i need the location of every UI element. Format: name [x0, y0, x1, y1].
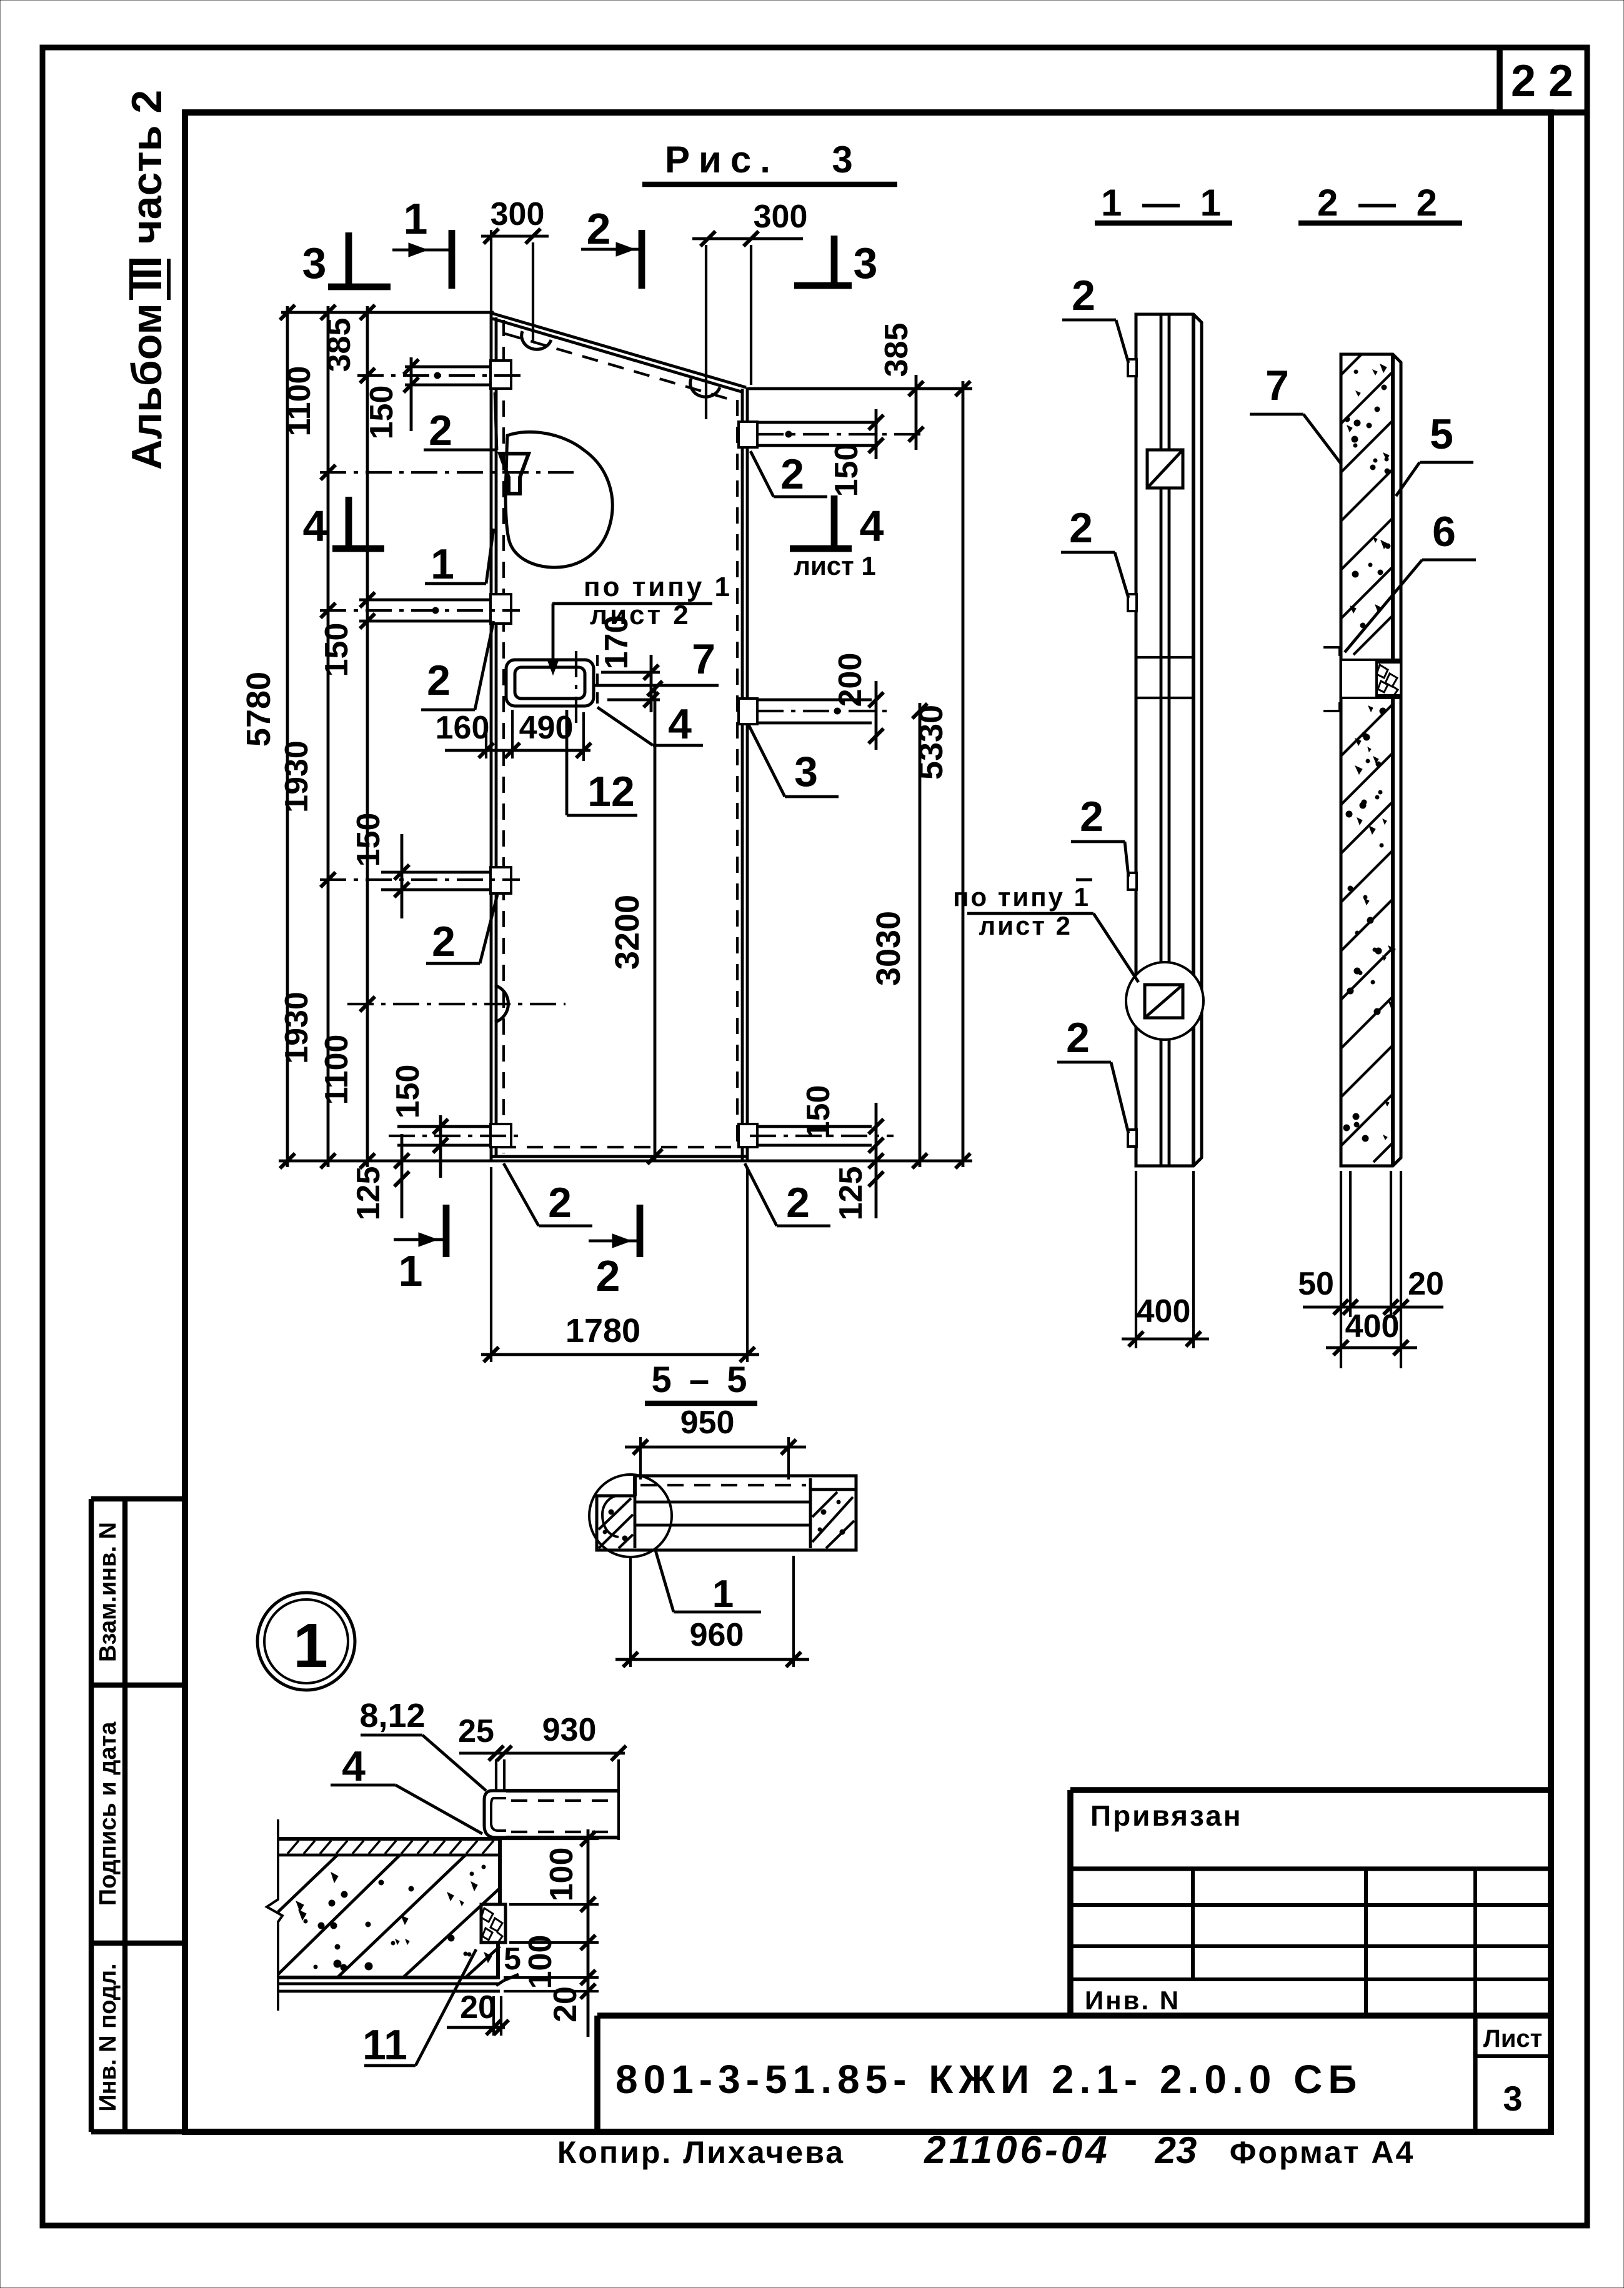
section 5-5 left concrete end	[599, 1496, 635, 1548]
svg-text:300: 300	[491, 196, 545, 232]
svg-text:2: 2	[1072, 272, 1095, 319]
svg-text:2: 2	[1066, 1014, 1090, 1062]
svg-text:3200: 3200	[609, 895, 646, 970]
svg-text:125: 125	[833, 1166, 869, 1221]
label 1 section 5-5	[655, 1548, 761, 1616]
svg-text:1: 1	[431, 540, 454, 588]
title block privyazan box	[1070, 1790, 1550, 2016]
svg-text:Привязан: Привязан	[1090, 1799, 1243, 1832]
svg-text:801-3-51.85- КЖИ 2.1- 2.0.0 СБ: 801-3-51.85- КЖИ 2.1- 2.0.0 СБ	[615, 2057, 1362, 2102]
note po tipu 1 list 2 (channel)	[547, 572, 732, 675]
svg-text:2: 2	[427, 657, 451, 704]
svg-text:300: 300	[754, 199, 808, 235]
dimension 1780 bottom width	[481, 1167, 759, 1362]
extension line panel top left	[281, 311, 494, 314]
svg-text:2: 2	[786, 1179, 810, 1226]
section 1-1 detail circle with anchor box	[1126, 962, 1203, 1040]
dimension line left 385 / 1100 bottom	[319, 305, 375, 1168]
svg-text:20: 20	[1408, 1266, 1444, 1302]
anchor tab row1 left edge	[357, 361, 522, 389]
svg-text:Лист: Лист	[1483, 2025, 1543, 2052]
panel right edge hidden line	[736, 400, 739, 1150]
section 5-5 detail circle callout	[589, 1475, 672, 1557]
svg-text:150: 150	[364, 385, 400, 440]
svg-text:400: 400	[1345, 1308, 1400, 1345]
dimension 150 row2 left	[319, 592, 375, 677]
label 7 section 2-2	[1250, 362, 1341, 464]
keyway block node detail	[481, 1904, 506, 1942]
svg-text:20: 20	[460, 1989, 496, 2026]
svg-text:385: 385	[321, 318, 357, 372]
label 2 section 1-1 fourth	[1057, 1014, 1128, 1133]
svg-text:5: 5	[1430, 410, 1453, 458]
svg-text:12: 12	[587, 768, 635, 815]
left sidebar stamp cells	[91, 1499, 185, 2132]
sidebar label Podpis i data	[95, 1721, 121, 1906]
svg-text:2: 2	[1080, 793, 1103, 840]
svg-text:1: 1	[712, 1573, 734, 1616]
svg-text:лист 1: лист 1	[794, 551, 875, 580]
sidebar label Vzam.inv.N	[95, 1522, 121, 1662]
svg-text:3: 3	[1503, 2079, 1522, 2118]
svg-text:2: 2	[587, 204, 611, 253]
svg-text:3030: 3030	[870, 911, 907, 986]
dimension 3200 inner height	[609, 681, 662, 1164]
label 7 channel	[594, 635, 719, 685]
svg-text:7: 7	[692, 635, 715, 683]
svg-text:1: 1	[404, 194, 428, 243]
svg-text:5330: 5330	[912, 705, 950, 780]
anchor tab rowB right edge	[739, 699, 894, 724]
dimension 5780 overall height	[240, 305, 295, 1168]
svg-text:23: 23	[1155, 2129, 1197, 2171]
label 2 bottom left	[504, 1163, 592, 1226]
detail designation circle 1	[257, 1593, 355, 1690]
album annotation Albom III chast 2	[123, 90, 171, 470]
panel top sloped hidden line	[505, 334, 736, 401]
dimension 125 bottom right	[833, 1153, 884, 1220]
svg-text:1: 1	[293, 1611, 328, 1681]
floor slab concrete hatch	[278, 1855, 500, 1977]
dimension 300 top right	[692, 199, 807, 419]
svg-text:150: 150	[319, 623, 355, 677]
dimension 400 section 1-1	[1122, 1171, 1209, 1348]
anchor tab row2 left edge	[320, 594, 520, 624]
svg-text:Инв. N подл.: Инв. N подл.	[95, 1963, 121, 2111]
figure title Ris. 3	[642, 139, 897, 184]
label 5 node detail	[496, 1941, 521, 1986]
floor slab break line	[267, 1819, 282, 2011]
section mark 2 bottom	[589, 1205, 640, 1300]
svg-text:6: 6	[1432, 508, 1456, 555]
lifting loop arc on slope (left)	[522, 331, 551, 349]
svg-text:160: 160	[436, 710, 490, 746]
dimension 300 top left	[481, 196, 549, 341]
label 2 section 1-1 third	[1071, 793, 1128, 877]
section 1-1 column outline	[1136, 314, 1202, 1166]
section 2-2 column outline	[1341, 354, 1401, 1166]
svg-text:150: 150	[800, 1085, 837, 1140]
lifting loop arc bottom left edge	[347, 985, 565, 1022]
section mark 1 bottom	[394, 1205, 446, 1295]
svg-text:125: 125	[351, 1166, 387, 1221]
section title 2-2	[1298, 182, 1462, 224]
dimension 150 row4 left	[390, 1065, 448, 1178]
section mark 3 top right	[794, 236, 877, 287]
panel bottom edge (double line)	[491, 1156, 747, 1161]
label 2 row2 left	[421, 621, 494, 710]
dimension 960 section 5-5	[615, 1556, 809, 1667]
panel top sloped edge (double line)	[491, 313, 746, 392]
label 11 node detail	[362, 1949, 476, 2069]
label 8,12 node detail	[359, 1697, 486, 1791]
title block document row	[597, 2016, 1550, 2132]
svg-text:150: 150	[390, 1065, 426, 1119]
svg-text:2: 2	[432, 918, 456, 965]
svg-text:2 — 2: 2 — 2	[1317, 182, 1442, 224]
label 2 row3 left	[426, 895, 497, 965]
lifting loop trapezoid	[500, 454, 529, 494]
svg-text:8,12: 8,12	[359, 1697, 425, 1734]
format A4 note	[1230, 2135, 1415, 2170]
dimensions 50 20 section 2-2	[1298, 1171, 1444, 1368]
svg-text:3: 3	[794, 748, 818, 795]
svg-text:5780: 5780	[240, 672, 277, 747]
section 5-5 right concrete end	[810, 1478, 856, 1548]
section 1-1 top anchor box	[1147, 450, 1183, 488]
svg-text:2: 2	[1069, 504, 1093, 552]
section mark 4 left	[303, 497, 384, 550]
label 5 section 2-2	[1396, 410, 1473, 496]
inner drawing frame	[185, 112, 1551, 2132]
panel left edge (double line)	[491, 312, 496, 1161]
dimensions 25 930 node detail	[458, 1712, 626, 1840]
svg-text:Копир. Лихачева: Копир. Лихачева	[557, 2135, 845, 2170]
svg-text:1100: 1100	[281, 366, 317, 437]
svg-text:170: 170	[599, 615, 635, 670]
svg-text:5: 5	[504, 1941, 521, 1976]
copier name	[557, 2135, 845, 2170]
svg-text:1: 1	[399, 1246, 423, 1295]
extension line top right corner	[749, 387, 972, 390]
svg-text:21106-04: 21106-04	[924, 2129, 1110, 2172]
panel channel profile node detail	[484, 1791, 506, 1838]
label 2 bottom right	[745, 1163, 830, 1226]
title block table	[1070, 1869, 1550, 2016]
svg-text:960: 960	[690, 1617, 744, 1653]
svg-text:25: 25	[458, 1713, 494, 1749]
svg-text:1 — 1: 1 — 1	[1101, 182, 1226, 224]
section title 5-5	[645, 1360, 757, 1403]
label 2 section 1-1 second	[1061, 504, 1128, 598]
svg-text:1930: 1930	[279, 992, 315, 1064]
svg-text:400: 400	[1137, 1293, 1191, 1330]
section 2-2 concrete hatch upper	[1341, 354, 1393, 655]
section 5-5 bar outline	[597, 1476, 856, 1550]
anchor tab rowC right edge	[739, 1124, 894, 1147]
dimension 150 rowA right	[829, 409, 884, 497]
label 6 section 2-2	[1345, 508, 1476, 652]
dimensions 100 100 20 node detail	[500, 1829, 599, 2037]
svg-text:Подпись и дата: Подпись и дата	[95, 1721, 121, 1906]
svg-text:5 – 5: 5 – 5	[652, 1360, 751, 1400]
svg-text:2: 2	[780, 450, 804, 498]
label 4 node detail	[331, 1743, 482, 1834]
dimension 150 row3 left	[351, 813, 409, 918]
svg-text:11: 11	[362, 2021, 407, 2069]
svg-text:1930: 1930	[279, 740, 315, 813]
anchor tab rowA right edge	[739, 422, 922, 447]
svg-text:4: 4	[342, 1743, 366, 1790]
svg-text:Формат А4: Формат А4	[1230, 2135, 1415, 2170]
dimension 400 section 2-2	[1326, 1308, 1417, 1355]
svg-text:950: 950	[680, 1405, 735, 1441]
svg-text:385: 385	[879, 323, 915, 377]
dimension 150 rowC right	[800, 1085, 884, 1162]
svg-text:7: 7	[1265, 362, 1289, 409]
sheet count 23	[1155, 2129, 1197, 2171]
svg-text:Инв. N: Инв. N	[1085, 1986, 1180, 2015]
svg-text:490: 490	[519, 710, 574, 746]
svg-text:2: 2	[596, 1251, 620, 1300]
floor slab screed hatch	[287, 1841, 494, 1854]
dimension 20 node detail bottom	[447, 1989, 509, 2036]
label 4 channel	[597, 700, 703, 748]
panel right edge (double line)	[742, 387, 747, 1161]
svg-text:50: 50	[1298, 1266, 1334, 1302]
recess blob outline	[506, 432, 612, 567]
dimension 125 bottom left	[351, 1134, 409, 1220]
dimension 170 channel	[599, 615, 660, 712]
svg-text:930: 930	[542, 1712, 597, 1748]
svg-text:2: 2	[548, 1179, 572, 1226]
label 3 rowB right	[749, 725, 839, 797]
section 2-2 joint gap with key block	[1341, 660, 1401, 698]
panel plan bar node detail	[506, 1791, 619, 1838]
section 5-5 inner web lines	[635, 1485, 810, 1525]
dimension 5330 right	[912, 381, 970, 1168]
dimension 385 right	[879, 323, 924, 450]
svg-text:3: 3	[854, 239, 878, 287]
dimensions 160 and 490 channel	[436, 710, 591, 761]
svg-text:2: 2	[429, 407, 452, 454]
panel left edge hidden line	[502, 320, 505, 1153]
svg-text:Рис.: Рис.	[665, 139, 779, 181]
sidebar label Inv.N podl.	[95, 1963, 121, 2111]
label 1 panel edge	[425, 529, 494, 588]
svg-text:4: 4	[303, 502, 327, 550]
label 2 top left anchor	[424, 392, 497, 454]
dimension 200 rowB right	[832, 653, 884, 750]
loop axis line top	[320, 471, 574, 474]
svg-text:4: 4	[860, 502, 884, 550]
floor slab outline node detail	[278, 1839, 500, 1991]
svg-text:3: 3	[302, 239, 327, 287]
section 1-1 anchor tabs	[1128, 359, 1137, 1146]
label 2 rowA right	[750, 450, 827, 498]
svg-text:Взам.инв. N: Взам.инв. N	[95, 1522, 121, 1662]
section 2-2 weld hooks	[1323, 647, 1340, 711]
label 12 channel	[567, 710, 637, 815]
panel bottom hidden line	[500, 1146, 740, 1148]
svg-text:4: 4	[668, 700, 692, 748]
svg-text:3: 3	[832, 139, 852, 181]
svg-text:150: 150	[351, 813, 387, 867]
sheet number box 22	[1500, 47, 1587, 112]
svg-text:по типу 1: по типу 1	[953, 882, 1090, 912]
svg-text:1780: 1780	[565, 1312, 640, 1350]
svg-text:100: 100	[544, 1848, 580, 1902]
dimension 150 row1 left	[364, 357, 419, 439]
svg-text:1100: 1100	[319, 1035, 355, 1105]
svg-text:лист 2: лист 2	[979, 911, 1072, 940]
svg-text:150: 150	[829, 443, 865, 497]
order number 21106-04	[924, 2129, 1110, 2172]
svg-text:по типу 1: по типу 1	[584, 572, 732, 602]
section 2-2 concrete hatch lower	[1341, 704, 1395, 1162]
note po tipu 1 list 2 (section 1-1)	[953, 880, 1138, 982]
dimension chain line left (1100/1930/1930)	[279, 305, 336, 1168]
embedded channel item plan view	[506, 651, 597, 726]
svg-text:2 2: 2 2	[1511, 56, 1573, 106]
anchor tab row3 left edge	[320, 867, 520, 893]
section 1-1 inner lines	[1161, 314, 1169, 1166]
extension line panel bottom	[279, 1160, 972, 1163]
section mark 1 top	[392, 194, 452, 289]
anchor tab row4 left edge	[389, 1124, 520, 1147]
svg-text:200: 200	[832, 653, 869, 707]
section mark 4 right with list 1	[790, 495, 884, 580]
section 1-1 cut lines	[1136, 657, 1193, 698]
section mark 3 top left	[302, 232, 391, 287]
section title 1-1	[1095, 182, 1232, 224]
label 2 section 1-1 first	[1062, 272, 1128, 363]
dimension 950 section 5-5	[625, 1405, 806, 1480]
lifting loop arc on slope (right)	[690, 379, 720, 397]
section mark 2 top	[581, 204, 642, 289]
title block inv N row	[1085, 1986, 1180, 2015]
dimension 3030 right	[870, 703, 927, 1168]
